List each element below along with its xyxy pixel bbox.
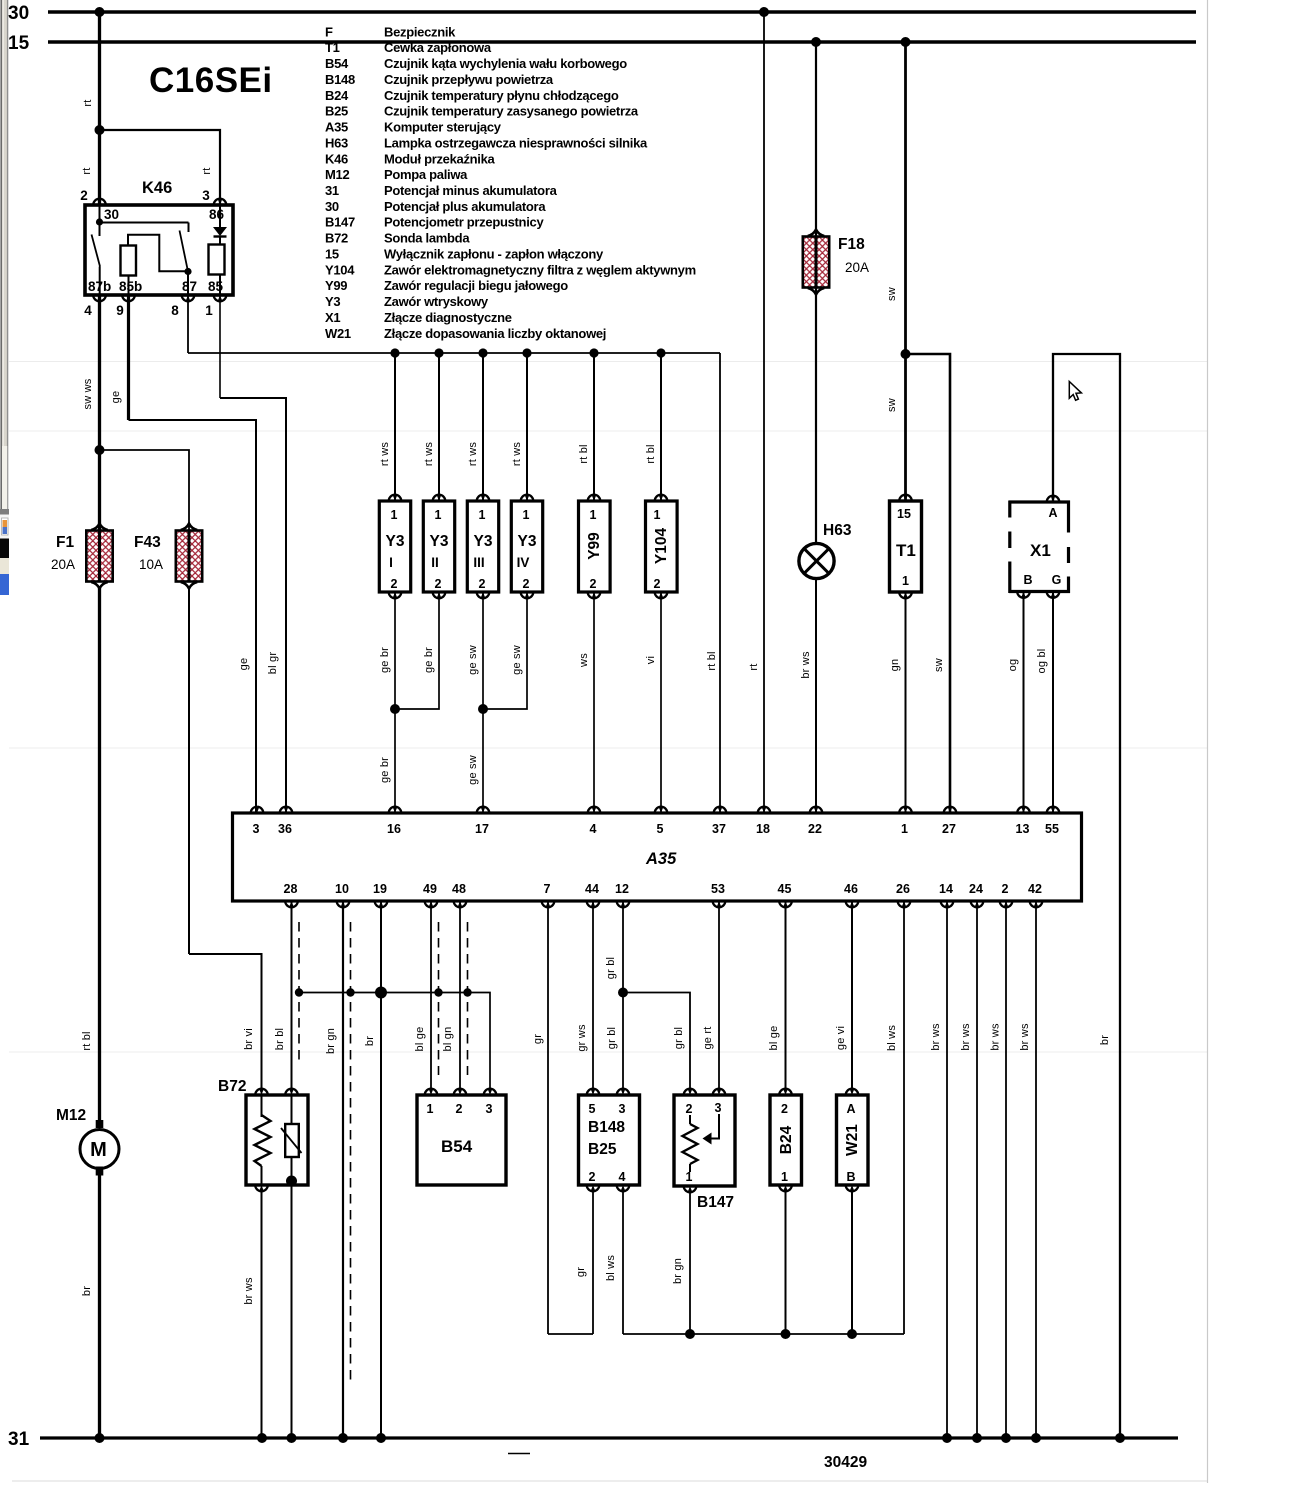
A35 pin 5 [655,807,668,813]
K46 diode series resistor [209,245,225,296]
B147 wiper arrow [703,1114,720,1145]
svg-text:22: 22 [808,822,822,836]
svg-text:gr ws: gr ws [576,1024,588,1052]
svg-text:B54: B54 [325,56,349,71]
svg-text:20A: 20A [845,260,869,275]
svg-text:br ws: br ws [1019,1023,1031,1051]
svg-text:28: 28 [284,882,298,896]
svg-text:3: 3 [486,1102,493,1116]
svg-text:B24: B24 [325,88,349,103]
A35 pin 48 [454,901,467,907]
svg-text:2: 2 [479,577,486,591]
wire: rail down to A35 pin 37 (rt bl) [706,353,720,813]
svg-text:gr: gr [532,1034,544,1044]
A35 pin 7 [542,901,555,907]
wire: Y99 to A35 pin 4 (ws) [578,592,594,813]
relay module K46 [80,179,233,318]
svg-text:2: 2 [391,577,398,591]
svg-text:gr bl: gr bl [673,1027,685,1049]
window taskbar icon artifact [0,515,9,596]
svg-text:A35: A35 [325,120,348,135]
svg-text:ge br: ge br [379,757,391,783]
A35 pin 16 [389,807,402,813]
svg-text:12: 12 [615,882,629,896]
wire: B24 pin 1 down [785,1190,787,1334]
svg-text:1: 1 [590,508,597,522]
svg-text:M12: M12 [325,167,349,182]
svg-text:14: 14 [939,882,953,896]
svg-text:gr bl: gr bl [605,957,617,979]
wire: branch to F43 [95,445,190,531]
svg-text:vi: vi [645,656,657,664]
wire: A35 pin 19 to bus31 (br) [364,901,381,1438]
svg-text:rt bl: rt bl [578,444,590,463]
tick mark under bus 31 [508,1453,530,1455]
svg-text:3: 3 [715,1101,722,1115]
svg-text:IV: IV [517,555,530,570]
wire: Y104 to A35 pin 5 (vi) [645,592,661,813]
wire: A35 pin 44 to B148 pin 5 (gr ws) [576,901,593,1089]
svg-text:br ws: br ws [243,1277,255,1305]
svg-text:20A: 20A [51,557,75,572]
svg-text:30: 30 [104,207,119,222]
svg-text:Y99: Y99 [325,278,347,293]
fuse F1 20A [51,524,113,589]
svg-text:bl ws: bl ws [605,1255,617,1281]
svg-text:II: II [431,555,439,570]
wire: X1 B to A35 pin 13 (og) [1007,592,1024,814]
svg-text:F: F [325,24,333,39]
svg-text:49: 49 [423,882,437,896]
A35 pin 28 [285,901,298,907]
svg-text:rt: rt [81,167,93,174]
A35 pin 17 [477,807,490,813]
svg-text:X1: X1 [325,310,340,325]
svg-text:br gn: br gn [325,1028,337,1054]
svg-text:br: br [364,1036,376,1046]
ECU A35 [233,807,1082,907]
wire: B72 sense ground to bus31 [291,1190,293,1438]
wire: A35 pin 7 (gr) [532,901,548,1334]
wire: branch pin12 to B147 pin 2 (gr bl) [618,988,690,1090]
svg-text:B: B [846,1170,855,1184]
svg-text:Pompa paliwa: Pompa paliwa [384,167,468,182]
svg-text:sw: sw [886,398,898,412]
svg-text:B24: B24 [778,1125,795,1154]
junction dots on injector feed rail [390,348,665,357]
svg-text:ge sw: ge sw [511,645,523,675]
svg-text:B72: B72 [218,1078,246,1095]
svg-text:1: 1 [686,1170,693,1184]
legend component list [325,24,696,341]
svg-text:44: 44 [585,882,599,896]
wire: F1 to M12 (rt bl) [81,588,100,1123]
svg-text:Złącze dopasowania liczby okta: Złącze dopasowania liczby oktanowej [384,326,606,341]
svg-text:3: 3 [619,1102,626,1116]
svg-text:1: 1 [902,574,909,588]
wire: A35 pin 26 (bl ws) [886,901,904,1334]
svg-text:gr bl: gr bl [606,1027,618,1049]
fuel pump M12 [56,1107,119,1176]
svg-text:30: 30 [8,3,29,24]
wire: Y3 II joins Y3 I (ge br) [390,592,439,714]
svg-text:9: 9 [116,303,124,318]
A35 pin 55 [1047,807,1060,813]
wire: A35 pin 45 to B24 pin 2 (bl ge) [768,901,786,1089]
svg-text:Y104: Y104 [325,262,355,277]
svg-text:F43: F43 [134,534,161,551]
wire: W21 pin B down [851,1190,853,1334]
A35 pin 27 [944,807,957,813]
carbon filter valve Y104 [645,353,677,598]
svg-text:2: 2 [456,1102,463,1116]
svg-text:M: M [90,1139,107,1161]
wire: M12 to bus31 (br) [81,1175,100,1438]
svg-text:Y3: Y3 [386,533,405,550]
svg-text:Zawór regulacji biegu jałowego: Zawór regulacji biegu jałowego [384,278,568,293]
svg-text:Y3: Y3 [430,533,449,550]
injector valve Y3 II [423,353,455,598]
injector valve Y3 IV [511,353,543,598]
svg-text:48: 48 [452,882,466,896]
svg-text:26: 26 [896,882,910,896]
svg-text:2: 2 [781,1102,788,1116]
svg-text:B147: B147 [325,215,355,230]
A35 pin 42 [1030,901,1043,907]
svg-text:A: A [1048,506,1057,520]
wire: Y3 I to A35 pin 16 (ge br) [379,592,395,813]
B72 sensor element [281,1095,302,1190]
svg-text:45: 45 [778,882,792,896]
svg-text:10: 10 [335,882,349,896]
svg-text:ge sw: ge sw [467,755,479,785]
svg-text:og: og [1007,659,1019,672]
wire: B147 pin 1 down (br gn) [672,1190,690,1334]
A35 pin 19 [375,901,388,907]
wire: B148 pin 4 down (bl ws) [605,1190,623,1334]
svg-text:15: 15 [325,247,339,262]
bus 30 (battery plus) [8,3,1196,24]
svg-text:B147: B147 [697,1194,734,1211]
svg-text:gn: gn [889,659,901,672]
svg-text:bl ge: bl ge [414,1027,426,1052]
wire: bus15 to T1 (sw) [886,37,911,501]
svg-text:19: 19 [373,882,387,896]
svg-text:sw: sw [886,287,898,301]
B72 heater element [255,1095,271,1185]
diagnostic connector X1 [1009,496,1070,598]
svg-text:F18: F18 [838,236,865,253]
fuse F43 10A [134,524,202,589]
K46 switch contact 30-87 [180,231,192,296]
svg-text:K46: K46 [325,151,348,166]
svg-text:B25: B25 [325,104,348,119]
svg-text:B148: B148 [325,72,355,87]
wire: K46 pin 8 injector feed rail [188,295,720,353]
wire: A35 pin 48 to B54 pin 2 (bl gn) [442,901,460,1089]
wire: A35 pin 28 to B72 sense (br bl) [274,901,292,1089]
ignition coil T1 [890,495,922,598]
svg-text:gr: gr [575,1267,587,1277]
svg-text:rt ws: rt ws [423,442,435,467]
svg-text:rt bl: rt bl [706,651,718,670]
svg-text:br ws: br ws [990,1023,1002,1051]
wire: Y3 IV joins Y3 III (ge sw) [478,592,527,714]
fuse F18 20A [803,230,869,295]
wire: A35 pin 46 to W21 pin A (ge vi) [835,901,852,1089]
svg-text:Komputer sterujący: Komputer sterujący [384,120,502,135]
svg-text:30: 30 [325,199,339,214]
K46 suppression diode [209,205,227,245]
A35 pin 1 [899,807,912,813]
svg-text:Lampka ostrzegawcza niesprawno: Lampka ostrzegawcza niesprawności silnik… [384,135,648,150]
svg-text:A35: A35 [645,850,677,868]
A35 pin 26 [898,901,911,907]
svg-text:2: 2 [654,577,661,591]
svg-text:br ws: br ws [930,1023,942,1051]
svg-text:8: 8 [171,303,179,318]
svg-text:W21: W21 [844,1124,861,1156]
svg-text:B: B [1023,573,1032,587]
svg-text:31: 31 [325,183,339,198]
svg-text:Zawór wtryskowy: Zawór wtryskowy [384,294,489,309]
svg-text:Czujnik kąta wychylenia wału k: Czujnik kąta wychylenia wału korbowego [384,56,627,71]
svg-text:og bl: og bl [1036,649,1048,674]
svg-text:2: 2 [523,577,530,591]
wire: Y3 III to A35 pin 17 (ge sw) [467,592,483,813]
svg-text:30429: 30429 [824,1454,867,1471]
wires: A35 pins 14 24 2 42 to bus31 (br ws) [930,901,1036,1438]
svg-text:2: 2 [435,577,442,591]
wire: bus30 to A35 pin 18 (rt) [748,7,769,813]
svg-text:Czujnik temperatury zasysanego: Czujnik temperatury zasysanego powietrza [384,104,639,119]
wire: F43 down to B72 heater (br vi) [189,588,262,1089]
svg-text:br ws: br ws [960,1023,972,1051]
svg-text:W21: W21 [325,326,351,341]
window scrollbar artifact left edge [0,0,9,515]
svg-text:2: 2 [80,188,88,203]
svg-text:Złącze diagnostyczne: Złącze diagnostyczne [384,310,512,325]
svg-text:C16SEi: C16SEi [149,61,273,100]
svg-text:K46: K46 [142,179,172,197]
svg-text:I: I [389,555,393,570]
svg-text:55: 55 [1045,822,1059,836]
svg-text:42: 42 [1028,882,1042,896]
svg-text:T1: T1 [325,40,340,55]
svg-text:br: br [81,1286,93,1296]
wire: B148 pin 2 down (gr) [575,1190,593,1334]
air flow sensor B148 / air temp sensor B25 [579,1089,640,1191]
svg-text:Y3: Y3 [474,533,493,550]
wire: A35 pin 12 to B148 pin 3 (gr bl) [605,901,623,1089]
svg-text:15: 15 [8,33,30,54]
svg-text:rt ws: rt ws [467,442,479,467]
svg-text:rt bl: rt bl [81,1031,93,1050]
wire: branch to K46 pin 3 (rt) [95,125,221,205]
svg-text:4: 4 [619,1170,626,1184]
A35 pin 10 [337,901,350,907]
svg-text:sw ws: sw ws [82,378,94,409]
A35 pin 2 [1000,901,1013,907]
svg-text:31: 31 [8,1429,30,1450]
K46 switch contact 30-87b [92,235,101,296]
svg-text:br: br [1099,1035,1111,1045]
svg-text:Potencjał plus akumulatora: Potencjał plus akumulatora [384,199,546,214]
svg-text:bl gn: bl gn [442,1027,454,1052]
svg-text:1: 1 [479,508,486,522]
wire: H63 to A35 pin 22 (br ws) [800,579,816,813]
svg-text:X1: X1 [1030,541,1051,560]
A35 pin 14 [941,901,954,907]
lambda probe B72 [218,1078,308,1191]
A35 pin 22 [810,807,823,813]
svg-text:A: A [846,1102,855,1116]
svg-text:ge br: ge br [423,647,435,673]
svg-text:1: 1 [427,1102,434,1116]
svg-text:Potencjometr przepustnicy: Potencjometr przepustnicy [384,215,544,230]
svg-text:B72: B72 [325,231,348,246]
svg-text:16: 16 [387,822,401,836]
wire: A35 pin 10 to bus31 (br gn) [325,901,343,1438]
svg-text:Czujnik temperatury płynu chło: Czujnik temperatury płynu chłodzącego [384,88,619,103]
svg-text:G: G [1052,573,1062,587]
svg-text:rt: rt [748,663,760,670]
A35 pin 45 [779,901,792,907]
svg-text:Y104: Y104 [653,528,670,565]
shield drain dashed wires [299,922,468,1380]
crank angle sensor B54 [417,1089,506,1185]
svg-text:Wyłącznik zapłonu - zapłon włą: Wyłącznik zapłonu - zapłon włączony [384,247,604,262]
svg-text:4: 4 [84,303,92,318]
svg-text:37: 37 [712,822,726,836]
svg-text:III: III [473,555,484,570]
svg-text:ge br: ge br [379,647,391,673]
svg-text:br ws: br ws [800,651,812,679]
wire: A35 pin 53 to B147 pin 3 (ge rt) [702,901,719,1089]
A35 pin 12 [617,901,630,907]
K46 internal node 30 [96,205,189,236]
svg-text:7: 7 [544,882,551,896]
A35 pin 4 [588,807,601,813]
wire: K46 pin 9 elbow (ge) [110,295,256,813]
wire: branch to A35 pin 27 (sw) [906,354,951,813]
svg-text:rt bl: rt bl [645,444,657,463]
svg-text:3: 3 [253,822,260,836]
K46 relay coil [121,235,187,295]
svg-text:ge sw: ge sw [467,645,479,675]
svg-text:Czujnik przepływu powietrza: Czujnik przepływu powietrza [384,72,554,87]
svg-text:bl gr: bl gr [267,652,279,675]
svg-text:M12: M12 [56,1107,86,1124]
ground link rail to A35 pin 26 [623,1329,904,1339]
svg-text:Sonda lambda: Sonda lambda [384,231,470,246]
wire: K46 pin 1 to A35 pin 36 (bl gr) [220,295,286,813]
svg-text:15: 15 [897,507,911,521]
svg-text:10A: 10A [139,557,163,572]
svg-text:46: 46 [844,882,858,896]
svg-text:18: 18 [756,822,770,836]
svg-text:Y99: Y99 [586,532,603,560]
A35 pin 24 [971,901,984,907]
svg-text:rt ws: rt ws [379,442,391,467]
svg-text:B148: B148 [588,1119,625,1136]
wire: bus15 to F18 [811,37,821,543]
svg-text:4: 4 [590,822,597,836]
A35 pin 46 [846,901,859,907]
svg-text:36: 36 [278,822,292,836]
svg-text:27: 27 [942,822,956,836]
svg-text:1: 1 [523,508,530,522]
injector valve Y3 III [467,353,499,598]
svg-text:H63: H63 [823,522,852,539]
bus 31 (ground) [8,1429,1178,1450]
bus 31 junction dots [95,1433,1126,1443]
injector valve Y3 I [379,353,411,598]
svg-text:1: 1 [391,508,398,522]
B147 resistor track [683,1115,698,1172]
svg-text:ge: ge [238,658,250,671]
svg-text:Zawór elektromagnetyczny filtr: Zawór elektromagnetyczny filtra z węglem… [384,262,696,277]
svg-text:H63: H63 [325,135,348,150]
svg-text:Cewka zapłonowa: Cewka zapłonowa [384,40,492,55]
svg-text:ge rt: ge rt [702,1026,714,1049]
svg-text:bl ge: bl ge [768,1026,780,1051]
svg-text:1: 1 [781,1170,788,1184]
svg-text:1: 1 [435,508,442,522]
octane plug W21 [837,1089,869,1191]
svg-text:1: 1 [901,822,908,836]
bus 15 (ignition) [8,33,1196,54]
svg-text:Moduł przekaźnika: Moduł przekaźnika [384,151,496,166]
wire: B72 heater to bus31 (br ws) [243,1190,262,1438]
svg-text:85b: 85b [119,279,142,294]
svg-text:5: 5 [657,822,664,836]
svg-text:13: 13 [1016,822,1030,836]
svg-text:3: 3 [202,188,210,203]
svg-text:rt: rt [201,167,213,174]
svg-text:85: 85 [208,279,224,294]
svg-text:br bl: br bl [274,1028,286,1050]
idle control valve Y99 [578,353,610,598]
svg-text:2: 2 [686,1102,693,1116]
svg-text:24: 24 [969,882,983,896]
wire: A35 pin 49 to B54 pin 1 (bl ge) [414,901,431,1089]
svg-text:1: 1 [654,508,661,522]
shield drain bus to B54 pin 3 [295,987,490,1090]
svg-text:br vi: br vi [243,1028,255,1050]
svg-text:Y3: Y3 [325,294,340,309]
svg-text:86: 86 [209,207,225,222]
svg-text:B54: B54 [441,1137,473,1156]
svg-text:5: 5 [589,1102,596,1116]
svg-text:ge vi: ge vi [835,1026,847,1050]
svg-text:T1: T1 [896,541,916,560]
svg-text:1: 1 [205,303,213,318]
wire: X1 pin A elbow to right side (br) [1053,354,1120,1438]
svg-text:17: 17 [475,822,489,836]
svg-text:Bezpiecznik: Bezpiecznik [384,24,456,39]
A35 pin 53 [713,901,726,907]
svg-text:B25: B25 [588,1141,617,1158]
svg-text:rt: rt [82,99,94,106]
svg-text:rt ws: rt ws [511,442,523,467]
wire: K46 pin 4 to F1 (sw ws) [82,295,100,531]
A35 pin 3 [251,807,264,813]
warning lamp H63 [799,522,852,579]
A35 pin 44 [587,901,600,907]
svg-text:sw: sw [933,658,945,672]
svg-text:ge: ge [110,391,122,404]
